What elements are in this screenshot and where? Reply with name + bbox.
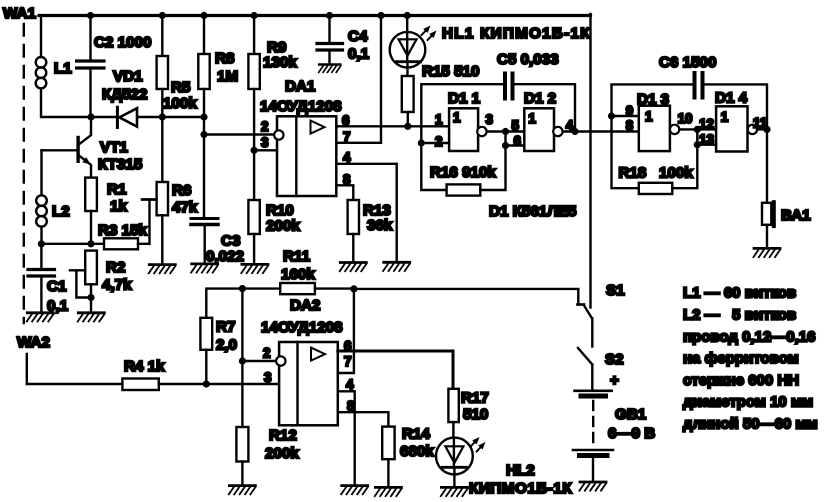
- junction VD1/R5: [159, 113, 166, 120]
- svg-text:R8: R8: [215, 50, 234, 67]
- LED HL2 КИПМО1Б-1К: [436, 435, 572, 497]
- svg-text:1: 1: [435, 112, 443, 127]
- svg-text:S2: S2: [605, 351, 624, 368]
- svg-text:5: 5: [512, 118, 520, 133]
- junction R16/D1.2 pin6: [502, 142, 509, 149]
- wire D1.1 output to D1.2: [488, 130, 525, 132]
- svg-text:D1 1: D1 1: [448, 90, 481, 107]
- node A junction L1/C2/VD1/VT1: [87, 113, 94, 120]
- ground DA2 pin4: [341, 486, 368, 495]
- wire DA2 pin 7 supply drop: [338, 289, 354, 373]
- svg-text:36k: 36k: [367, 217, 393, 234]
- junction bus/C4: [326, 12, 333, 19]
- svg-text:1M: 1M: [217, 68, 238, 85]
- diode VD1 КД522: [91, 68, 204, 128]
- svg-text:6—9 В: 6—9 В: [608, 425, 655, 442]
- note coil winding specification text: [683, 285, 818, 433]
- wire S1 to S2: [591, 318, 593, 346]
- svg-text:КД522: КД522: [102, 86, 147, 103]
- svg-text:R12: R12: [269, 427, 297, 444]
- wire L1 bottom to node A: [41, 88, 91, 117]
- resistor R7 2,0: [200, 289, 242, 384]
- resistor R6 47k trimmer: [142, 117, 198, 264]
- svg-text:R3 15k: R3 15k: [98, 222, 148, 239]
- svg-text:на ферритовом: на ферритовом: [683, 350, 799, 367]
- battery GB1 6-9V: [573, 372, 655, 482]
- wire D1.1 pin2: [421, 142, 449, 144]
- switch S1: [577, 282, 625, 318]
- junction R8/DA1 pin2 wire: [200, 131, 207, 138]
- ground R6: [149, 265, 176, 274]
- ground R14: [375, 487, 402, 496]
- junction D1.3 out/R18: [694, 126, 701, 133]
- svg-text:C5 0,033: C5 0,033: [497, 51, 559, 68]
- resistor R14 680k: [382, 426, 434, 488]
- junction C6/D1.4 output: [763, 126, 770, 133]
- svg-text:C2 1000: C2 1000: [94, 34, 151, 51]
- wire DA2 pin 4 to ground: [338, 391, 355, 485]
- svg-text:C4: C4: [348, 28, 368, 45]
- svg-text:14ОУД1208: 14ОУД1208: [261, 319, 343, 336]
- svg-text:510: 510: [463, 406, 488, 423]
- svg-text:+: +: [610, 372, 619, 389]
- wire D1.4 output: [757, 128, 767, 130]
- wire DA1 pin 4 to ground: [336, 164, 396, 262]
- resistor R9 130k: [248, 16, 297, 151]
- junction output/R16: [502, 128, 509, 135]
- svg-text:3: 3: [486, 112, 493, 127]
- ground HL2: [441, 487, 468, 496]
- svg-text:L2: L2: [52, 203, 70, 220]
- junction bus/R8: [200, 12, 207, 19]
- svg-text:1: 1: [721, 110, 729, 125]
- svg-text:HL2: HL2: [506, 462, 535, 479]
- svg-text:R1: R1: [107, 181, 127, 198]
- junction bus/R9: [251, 12, 258, 19]
- speaker BA1: [762, 129, 811, 248]
- svg-text:R14: R14: [402, 426, 430, 443]
- wire bus drop to S1 fixed contact: [589, 14, 591, 308]
- wire to DA1 pin 3: [254, 149, 277, 151]
- IC label D1 К561ЛЕ5: [489, 203, 577, 220]
- wire D1.3 pin9: [612, 115, 639, 117]
- svg-text:2: 2: [261, 119, 268, 134]
- wire D1.2 output to D1.3 pin8: [563, 130, 638, 132]
- svg-text:8: 8: [626, 118, 634, 133]
- svg-text:4,7k: 4,7k: [102, 277, 132, 294]
- resistor R5 100k: [157, 16, 198, 118]
- svg-text:стержне 600 НН: стержне 600 НН: [683, 372, 799, 389]
- svg-text:R18 100k: R18 100k: [619, 165, 694, 182]
- svg-text:0,1: 0,1: [348, 46, 370, 63]
- resistor R12 200k: [236, 427, 299, 485]
- svg-text:C3: C3: [221, 233, 240, 250]
- svg-text:R11: R11: [283, 248, 311, 265]
- junction R11/supply wire: [350, 285, 357, 292]
- svg-text:ВА1: ВА1: [781, 207, 811, 224]
- svg-text:680k: 680k: [400, 443, 434, 460]
- wire DA1 pin 7 supply drop: [336, 16, 381, 143]
- junction bus/pin7 drop: [377, 12, 384, 19]
- antenna boundary dashed line: [23, 24, 25, 323]
- junction pin2: [239, 357, 246, 364]
- svg-text:КТ315: КТ315: [98, 156, 143, 173]
- svg-text:D1 4: D1 4: [715, 90, 748, 107]
- capacitor C2: [77, 16, 152, 118]
- svg-text:0,022: 0,022: [206, 248, 244, 265]
- svg-text:1k: 1k: [110, 198, 127, 215]
- svg-text:R7: R7: [216, 319, 235, 336]
- wire D1.3 output to D1.4: [679, 128, 716, 130]
- resistor R1 1k: [85, 178, 127, 244]
- svg-text:2,0: 2,0: [216, 337, 237, 354]
- svg-text:7: 7: [344, 354, 351, 369]
- capacitor C3 0,022: [191, 219, 244, 266]
- gate D1.1 К561ЛЕ5: [435, 90, 493, 151]
- svg-text:3: 3: [264, 370, 271, 385]
- svg-text:14ОУД1208: 14ОУД1208: [260, 98, 342, 115]
- ground DA1 pin4: [383, 262, 410, 271]
- svg-text:D1 3: D1 3: [637, 91, 669, 108]
- svg-text:VD1: VD1: [113, 68, 143, 85]
- svg-text:4: 4: [346, 377, 354, 392]
- capacitor C6 1500: [612, 54, 768, 129]
- wire base bias node: [41, 243, 104, 245]
- svg-text:D1 2: D1 2: [524, 90, 556, 107]
- svg-text:VT1: VT1: [100, 139, 128, 156]
- ground BA1: [753, 248, 780, 257]
- resistor R17 510: [448, 389, 488, 438]
- svg-text:130k: 130k: [263, 54, 297, 71]
- resistor R11 160k: [242, 248, 354, 294]
- junction R2 wiper: [87, 294, 94, 301]
- ground C1: [27, 313, 54, 322]
- gate D1.2 К561ЛЕ5: [506, 90, 574, 151]
- svg-text:1: 1: [528, 111, 536, 126]
- junction R9/R10/DA1 pin3: [251, 147, 258, 154]
- node WA2 antenna label: [17, 334, 50, 351]
- svg-text:R6: R6: [172, 182, 191, 199]
- svg-text:L1 — 60 витков: L1 — 60 витков: [683, 285, 796, 302]
- ground GB1: [579, 482, 606, 491]
- wire DA2 pin 8: [338, 412, 389, 426]
- resistor R15 510: [402, 63, 480, 126]
- svg-text:DA2: DA2: [290, 297, 320, 314]
- ground C3: [191, 264, 218, 273]
- inductor L1: [36, 57, 73, 88]
- svg-text:GB1: GB1: [615, 406, 647, 423]
- svg-text:3: 3: [261, 135, 268, 150]
- svg-text:C1: C1: [47, 278, 67, 295]
- resistor R16 910k: [421, 132, 505, 196]
- gate D1.4 К561ЛЕ5: [697, 90, 767, 152]
- junction R18/D1.4 pin13: [694, 141, 701, 148]
- junction VD1/R8: [200, 113, 207, 120]
- svg-text:2: 2: [263, 346, 270, 361]
- capacitor C1 0,1: [28, 244, 69, 315]
- svg-text:S1: S1: [606, 282, 625, 299]
- transistor VT1 КТ315: [42, 117, 143, 178]
- svg-text:L2 — 5 витков: L2 — 5 витков: [683, 307, 796, 324]
- svg-text:1: 1: [645, 109, 653, 124]
- resistor R3 15k: [98, 200, 156, 250]
- resistor R4 1k: [122, 358, 279, 390]
- wire top supply bus: [39, 14, 591, 17]
- ground R13: [340, 263, 367, 272]
- svg-text:10: 10: [678, 111, 693, 126]
- svg-text:R16 910k: R16 910k: [430, 164, 496, 181]
- resistor R18 100k: [612, 116, 698, 194]
- svg-text:200k: 200k: [266, 218, 300, 235]
- capacitor C5 0,033: [421, 51, 575, 143]
- junction bus/HL1: [404, 12, 411, 19]
- svg-text:2: 2: [435, 134, 442, 149]
- svg-text:R2: R2: [106, 259, 125, 276]
- resistor R2 4,7k trimmer: [70, 251, 132, 313]
- svg-text:R5: R5: [171, 79, 191, 96]
- switch S2: [578, 348, 624, 368]
- svg-text:WA1: WA1: [3, 5, 36, 22]
- svg-text:47k: 47k: [172, 199, 198, 216]
- wire S2 to battery: [591, 365, 593, 390]
- svg-text:100k: 100k: [163, 95, 197, 112]
- svg-text:WA2: WA2: [17, 334, 50, 351]
- junction R1/R2/wire: [87, 240, 94, 247]
- junction bus/C2: [87, 12, 94, 19]
- svg-text:R10: R10: [266, 202, 294, 219]
- ground R12: [229, 486, 256, 495]
- wire DA1 pin 6 output: [336, 125, 449, 127]
- svg-text:R15 510: R15 510: [422, 63, 479, 80]
- junction C5/D1.2 output: [571, 128, 578, 135]
- junction L2/C1/wire: [38, 240, 45, 247]
- wire supply to switch S1: [354, 289, 578, 305]
- svg-text:R4 1k: R4 1k: [124, 358, 165, 375]
- gate D1.3 К561ЛЕ5: [626, 91, 693, 151]
- wire bus to L1: [40, 16, 42, 58]
- junction R11/R12/DA2 pin2: [239, 285, 246, 292]
- wire DA2 pin 6 output: [338, 351, 453, 389]
- junction R15/pin6 wire: [404, 123, 411, 130]
- svg-text:1: 1: [453, 110, 461, 125]
- ground C4: [319, 65, 341, 73]
- svg-text:13: 13: [699, 132, 714, 147]
- LED HL1 КИПМО1Б-1К: [390, 16, 591, 77]
- wire WA2 to R4: [27, 354, 123, 384]
- junction C5-R16/pin2: [418, 139, 425, 146]
- svg-text:D1 К561ЛЕ5: D1 К561ЛЕ5: [489, 203, 577, 220]
- ground R10: [241, 264, 268, 273]
- junction R7/R4/DA2 pin3: [203, 380, 210, 387]
- svg-text:160k: 160k: [281, 266, 315, 283]
- wire DA1 pin 8: [336, 185, 353, 200]
- capacitor C4 0,1: [317, 16, 370, 65]
- resistor R13 36k: [348, 200, 393, 262]
- svg-text:L1: L1: [54, 60, 72, 77]
- wire R8 node to DA1 pin 2: [204, 133, 274, 135]
- svg-text:DA1: DA1: [285, 78, 316, 95]
- svg-text:провод 0,12—0,16: провод 0,12—0,16: [683, 329, 815, 346]
- junction C6-R18/pin9: [608, 112, 615, 119]
- svg-text:длиной 50—60 мм: длиной 50—60 мм: [683, 416, 818, 433]
- resistor R10 200k: [248, 150, 300, 264]
- svg-text:R17: R17: [461, 390, 489, 407]
- wire DA2 pin 2: [242, 360, 276, 362]
- node WA1 antenna label: [3, 5, 36, 22]
- op-amp DA1 14ОУД1208: [260, 78, 351, 196]
- svg-text:12: 12: [699, 117, 714, 132]
- svg-text:6: 6: [514, 134, 521, 149]
- svg-text:диаметром 10 мм: диаметром 10 мм: [683, 394, 813, 411]
- junction bus/R5: [159, 12, 166, 19]
- op-amp DA2 14ОУД1208: [261, 297, 355, 425]
- ground R2: [78, 313, 105, 322]
- wire R11 node down to pin2 and R12: [241, 289, 243, 427]
- svg-text:200k: 200k: [265, 445, 299, 462]
- svg-text:HL1 КИПМО1Б-1К: HL1 КИПМО1Б-1К: [442, 25, 591, 42]
- svg-text:C6 1500: C6 1500: [659, 54, 716, 71]
- resistor R8 1M: [198, 16, 238, 218]
- svg-text:КИПМО1Б-1К: КИПМО1Б-1К: [469, 480, 572, 497]
- inductor L2: [36, 150, 70, 244]
